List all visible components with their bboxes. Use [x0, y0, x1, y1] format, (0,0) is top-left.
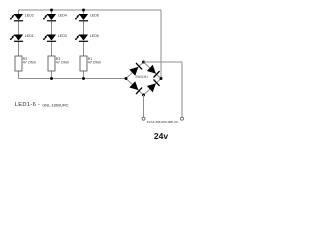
LED LED4: [43, 14, 56, 21]
resistor R1: [80, 56, 87, 71]
svg-text:LED1-6 -: LED1-6 -: [15, 102, 41, 108]
node bridge right corner (DC+): [160, 77, 163, 80]
svg-text:47 Ohm: 47 Ohm: [88, 61, 101, 65]
svg-text:LED1: LED1: [25, 34, 34, 38]
svg-text:LED3: LED3: [58, 34, 67, 38]
wire right vertical from top bus to bridge + corner: [160, 10, 162, 79]
wire column 2 segments: [51, 10, 53, 79]
bridge diode D3 (left to bottom): [129, 81, 142, 94]
node bridge bottom corner (AC2): [142, 94, 145, 97]
svg-text:24v: 24v: [154, 131, 168, 141]
svg-text:LED5: LED5: [90, 34, 99, 38]
LED LED6: [75, 14, 88, 21]
wire column 1 segments: [18, 10, 20, 79]
svg-text:GNL-1860URC: GNL-1860URC: [42, 103, 69, 108]
resistor R2: [15, 56, 22, 71]
wire AC1: bridge top corner to connector pin 2: [144, 62, 183, 117]
wire top bus (+): [19, 9, 162, 11]
svg-text:KLS3-306-500-00P-2C: KLS3-306-500-00P-2C: [147, 120, 179, 124]
bridge rectifier B1 frame: [126, 62, 161, 95]
LED LED5: [75, 35, 88, 42]
svg-text:47 Ohm: 47 Ohm: [56, 61, 69, 65]
node bridge left corner (DC-): [125, 77, 128, 80]
bridge diode D1 (left to top): [129, 63, 142, 76]
LED LED3: [43, 35, 56, 42]
connector X1 pin 2: [181, 117, 184, 120]
connector X1 pin 1: [142, 117, 145, 120]
wire bottom bus (-): [19, 78, 127, 80]
bridge diode D2 (top to right): [147, 65, 160, 78]
LED LED1: [10, 35, 23, 42]
junction bottom bus / column 2: [50, 77, 53, 80]
wire AC2: bridge bottom corner to connector pin 1: [143, 95, 145, 117]
junction top bus / column 3: [82, 9, 85, 12]
resistor R3: [48, 56, 55, 71]
svg-text:LED2: LED2: [25, 13, 34, 17]
svg-text:LED4: LED4: [58, 13, 67, 17]
svg-text:2W01M1: 2W01M1: [135, 75, 148, 79]
bridge diode D4 (bottom to right): [147, 80, 160, 93]
node bridge top corner (AC1): [142, 61, 145, 64]
wire column 3 segments: [83, 10, 85, 79]
svg-text:LED6: LED6: [90, 13, 99, 17]
junction top bus / column 2: [50, 9, 53, 12]
junction bottom bus / column 3: [82, 77, 85, 80]
LED LED2: [10, 14, 23, 21]
svg-text:47 Ohm: 47 Ohm: [23, 61, 36, 65]
